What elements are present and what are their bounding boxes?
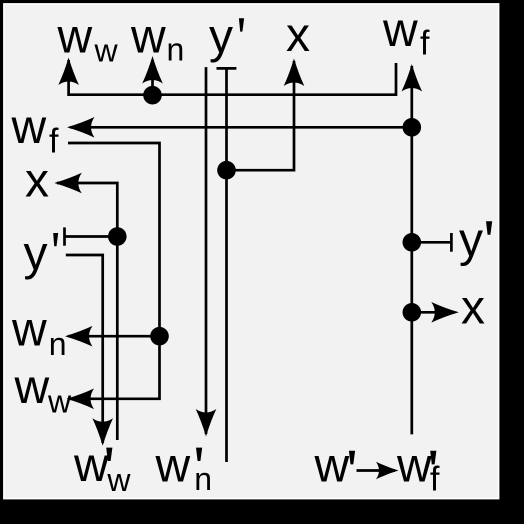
svg-text:w: w [11,101,47,154]
junction dot y' column [217,161,236,180]
wire long column with top T-bar [225,68,228,462]
svg-text:n: n [194,461,212,497]
wire w_f column right [410,66,413,434]
wire long column to w_n' arrow [205,67,208,434]
arrowhead right w' map [376,462,399,480]
svg-text:w: w [106,462,131,498]
svg-text:f: f [49,123,59,161]
svg-text:n: n [49,326,67,362]
wire w_n branch [151,60,154,95]
svg-text:x: x [25,155,49,208]
arrowhead left w_f [67,117,95,138]
svg-text:y: y [459,214,483,267]
svg-text:x: x [461,282,485,335]
prime w_w' [106,448,112,461]
svg-text:w: w [47,384,72,420]
svg-text:w: w [396,440,432,493]
svg-text:f: f [430,461,440,499]
svg-text:y: y [209,11,233,64]
junction dot y' left [108,227,127,246]
wire y' right [412,241,452,244]
junction dot y' right [403,233,422,252]
prime top y' [239,18,244,31]
svg-text:w: w [14,361,50,414]
arrowhead left w_n [65,326,93,347]
junction dot w_n row [150,327,169,346]
svg-text:w: w [155,440,191,493]
arrowhead up w_n [142,56,163,84]
svg-text:n: n [167,32,185,68]
wire w_f feed down to w_n/w_w [68,143,160,399]
arrowhead up x top [284,59,305,87]
svg-text:x: x [286,9,310,62]
junction dot top bus [143,86,162,105]
T-bar y' right [450,233,453,252]
arrowhead down w_n' column [196,409,217,437]
svg-text:f: f [420,25,430,63]
junction dot x right [403,303,422,322]
svg-text:w: w [57,11,93,64]
arrowhead left w_w [67,389,95,410]
svg-text:w: w [382,4,418,57]
svg-text:w: w [11,304,47,357]
junction dot w_f row [403,118,422,137]
arrowhead down y' column [92,418,113,446]
prime w_f' [430,451,436,465]
prime w' [349,451,355,465]
svg-text:w: w [314,440,350,493]
wire branch to x top arrow [227,61,295,170]
T-bar top y' [217,67,237,70]
T-bar y' left [63,227,66,245]
prime left y' [53,233,58,246]
arrowhead right x [431,302,459,323]
wire y' input left [65,235,118,238]
prime w_n' [196,448,202,461]
arrowhead left x [54,173,82,194]
wire x output left, down column [57,183,117,440]
wire x right [412,311,455,314]
arrowhead up w_w [58,58,79,86]
svg-text:w: w [73,439,109,492]
arrowhead up w_f top [402,64,423,92]
svg-text:y: y [24,228,48,281]
wire w_n output left [68,335,160,338]
wire top bus w_w/w_n to under w_f [69,60,396,95]
wire w_f output row [70,126,412,129]
svg-text:w: w [94,33,119,69]
svg-text:w: w [130,11,166,64]
prime right y' [486,221,492,235]
wire y' down column to w_w' [66,255,103,443]
wire w' to w_f' arrow shaft [357,469,396,472]
